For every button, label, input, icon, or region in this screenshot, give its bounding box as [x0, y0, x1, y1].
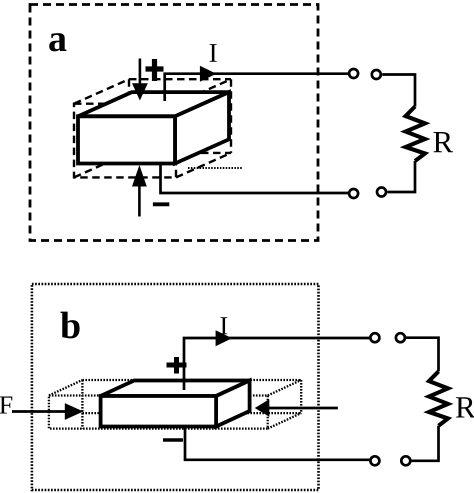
svg-text:R: R	[455, 389, 474, 424]
svg-text:F: F	[0, 390, 13, 419]
svg-text:b: b	[60, 305, 81, 347]
svg-text:a: a	[48, 18, 67, 60]
svg-text:I: I	[209, 38, 218, 68]
svg-text:I: I	[219, 311, 228, 340]
svg-text:R: R	[432, 124, 453, 159]
